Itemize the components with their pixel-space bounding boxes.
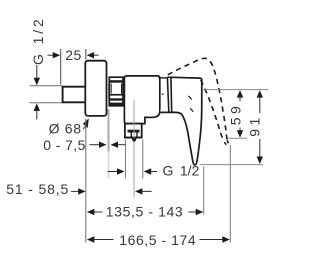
extension line pipe top [30, 85, 63, 87]
extension line handle front (135,5-143 right boundary) [203, 167, 205, 215]
svg-text:91: 91 [247, 114, 263, 137]
handle cap and lever (solid, closed position) [160, 77, 202, 165]
escutcheon [85, 61, 106, 116]
connector gray strip between escutcheon and nut [107, 84, 109, 99]
dimension 25 left arrow [48, 52, 61, 58]
dimension 51-58,5 right arrow [135, 188, 152, 194]
Ø 68 leader arrow [83, 118, 89, 128]
extension line 59 bottom boundary [228, 137, 247, 139]
dimension 91 lower arrow [257, 139, 263, 164]
extension line G1/2 bottom left boundary [124, 140, 126, 179]
svg-text:G: G [163, 162, 174, 178]
dashed handle tip [224, 140, 228, 145]
handle surface detail arcs [188, 96, 191, 100]
dimension 0-7,5 leader and arrows [90, 142, 107, 148]
svg-text:59: 59 [227, 103, 243, 126]
dimension 166,5 - 174 left arrow [87, 236, 114, 242]
G 1/2 top dim lower arrow (up) [34, 103, 40, 119]
wall line [108, 109, 110, 152]
svg-text:Ø 68: Ø 68 [49, 120, 82, 136]
extension line escutcheon face (long, lower) [85, 119, 87, 243]
svg-text:1/2: 1/2 [180, 162, 200, 178]
connection nut (ribbed) [109, 77, 124, 106]
extension line dashed handle tip (166,5-174 right boundary) [229, 145, 231, 243]
outlet tip [132, 138, 137, 141]
handle left facet (double slant line) [167, 77, 168, 112]
dimension 59 upper arrow [237, 90, 243, 101]
extension line escutcheon face top (25 dim, right boundary) [85, 49, 87, 60]
extension line handle top (59/91 top boundary) [203, 89, 269, 91]
body cap shelf line [159, 77, 167, 79]
dimension 51-58,5 left arrow [71, 188, 86, 194]
dimension 91 upper arrow [257, 90, 263, 113]
dimension 59 lower arrow [237, 128, 243, 138]
dimension 25 right arrow [87, 52, 99, 58]
outlet block [125, 124, 142, 139]
valve body [124, 76, 159, 124]
G 1/2 top dim upper arrow (down) [34, 65, 40, 85]
dashed handle open position outer edge [168, 58, 227, 140]
pipe stub (wall supply S-union) [63, 87, 87, 103]
svg-text:25: 25 [65, 47, 82, 63]
dimension 166,5 - 174 right arrow [200, 236, 230, 242]
dimension 135,5 - 143 right arrow [189, 209, 204, 215]
extension line left of pipe (25 dim, left boundary) [60, 49, 62, 85]
outlet centerline [133, 100, 135, 198]
svg-text:51 - 58,5: 51 - 58,5 [6, 181, 69, 197]
svg-text:135,5 - 143: 135,5 - 143 [106, 204, 183, 220]
extension line 91 bottom boundary [200, 164, 263, 166]
dashed handle open position inner edge [201, 80, 224, 141]
extension line pipe bottom [30, 102, 63, 104]
svg-text:G 1/2: G 1/2 [30, 16, 46, 65]
extension line G1/2 bottom right boundary [142, 140, 144, 179]
dimension G1/2 bottom right arrow [144, 168, 157, 174]
dimension G1/2 bottom left arrow [108, 168, 125, 174]
svg-text:166,5 - 174: 166,5 - 174 [119, 232, 196, 248]
dimension 135,5 - 143 left arrow [87, 209, 102, 215]
cartridge tick [162, 93, 165, 95]
svg-text:0 - 7,5: 0 - 7,5 [43, 137, 86, 153]
